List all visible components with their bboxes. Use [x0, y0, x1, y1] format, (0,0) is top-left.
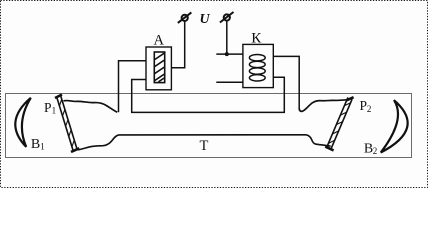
svg-text:P: P: [44, 100, 52, 115]
wire: left terminal down and to A right side: [171, 21, 184, 68]
wire W2: A lower-left, down, bus to K right side: [132, 77, 285, 112]
carbon element (hatched) in A: [154, 52, 164, 83]
coil L in K: [249, 55, 265, 82]
terminal X1 (left, circle with slash): [178, 12, 192, 23]
terminal X2 (right, circle with slash): [220, 12, 234, 23]
wire W1: A upper-left down to membrane lead: [119, 61, 147, 113]
membrane P1 (slanted hatched strip): [55, 95, 79, 152]
horn arc B1 (crescent): [15, 98, 31, 147]
svg-text:1: 1: [40, 142, 45, 152]
junction dot: [225, 52, 229, 56]
tube T with horns (lower outline): [78, 135, 331, 150]
wire: stub to K lower-left: [216, 81, 243, 83]
flexible lead to membrane P1: [64, 100, 118, 112]
svg-text:1: 1: [52, 106, 57, 116]
telephone box K: [243, 44, 273, 87]
svg-text:U: U: [199, 12, 210, 27]
flexible lead to membrane P2: [299, 100, 349, 112]
apparatus enclosure box: [6, 94, 412, 158]
dotted page border: [1, 1, 428, 188]
svg-text:B: B: [31, 137, 40, 152]
svg-text:P: P: [360, 98, 368, 113]
svg-text:T: T: [200, 138, 209, 154]
svg-text:2: 2: [367, 104, 372, 114]
wire: K upper-right to membrane P2 lead: [273, 56, 299, 108]
svg-text:A: A: [154, 32, 165, 48]
membrane P2 (slanted hatched strip): [325, 97, 353, 150]
microphone box A: [146, 47, 171, 90]
horn arc B2 (crescent): [381, 100, 408, 152]
svg-text:2: 2: [373, 146, 378, 156]
wire: to K upper-left: [216, 53, 243, 55]
wire: right terminal down to junction: [226, 20, 228, 54]
svg-text:К: К: [251, 30, 262, 46]
